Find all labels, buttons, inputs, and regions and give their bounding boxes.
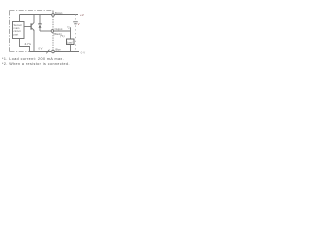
svg-text:Output: Output bbox=[55, 27, 63, 31]
svg-text:*2: *2 bbox=[67, 25, 70, 29]
svg-text:V: V bbox=[78, 22, 80, 26]
svg-text:Blue: Blue bbox=[56, 47, 62, 51]
terminal circle 0V bbox=[52, 50, 55, 53]
battery plate short bbox=[74, 23, 76, 25]
transistor Q1 collector bbox=[32, 15, 34, 26]
svg-text:Brown: Brown bbox=[55, 11, 63, 15]
sensor enclosure dashed box top edge bbox=[10, 10, 54, 12]
wire: load bottom to 0V bbox=[70, 45, 72, 52]
zener diode D1 lead bbox=[39, 15, 41, 32]
svg-text:0 V: 0 V bbox=[39, 47, 43, 51]
zener diode D1 cathode bar bbox=[38, 23, 42, 25]
wire: 0V bottom rail bbox=[30, 51, 80, 53]
load stub and *2 mark bbox=[70, 27, 72, 31]
battery plate long bbox=[73, 21, 78, 23]
transistor Q1 base bar bbox=[30, 23, 32, 29]
svg-text:Load: Load bbox=[67, 41, 73, 44]
sensor enclosure dashed box bottom edge bbox=[10, 51, 47, 53]
wire: load top bbox=[70, 31, 72, 39]
main circuit box U1 bbox=[13, 22, 25, 39]
power supply dashed lead bbox=[75, 15, 77, 52]
polarity slash on 0V wire bbox=[46, 50, 49, 54]
terminal circle output bbox=[51, 30, 54, 33]
svg-text:0 V: 0 V bbox=[81, 50, 86, 54]
svg-text:+V: +V bbox=[80, 13, 84, 17]
svg-text:*1. Load current: 200 mA max.: *1. Load current: 200 mA max. bbox=[2, 57, 64, 61]
svg-text:*2. When a resistor is connect: *2. When a resistor is connected. bbox=[2, 62, 70, 66]
wire: output to load bbox=[54, 30, 71, 32]
transistor Q1 emitter with arrow bbox=[32, 28, 34, 52]
load box bbox=[67, 39, 75, 45]
wire: +V top rail bbox=[20, 14, 79, 16]
terminal circle +V bbox=[52, 14, 55, 17]
wire: base of transistor Q1 bbox=[24, 26, 31, 28]
zener diode D1 triangle bbox=[39, 24, 42, 27]
wire: output to terminal bbox=[40, 30, 51, 32]
sensor enclosure dashed box right edge bbox=[52, 11, 54, 14]
wire: resistor leg from main circuit to 0V rail bbox=[20, 39, 30, 52]
svg-text:part: part bbox=[14, 32, 19, 36]
svg-text:(*1): (*1) bbox=[60, 34, 65, 38]
sensor enclosure dashed box left edge bbox=[9, 11, 11, 52]
svg-text:4.7 k: 4.7 k bbox=[25, 42, 32, 46]
wire: main circuit to +V rail bbox=[19, 15, 21, 22]
